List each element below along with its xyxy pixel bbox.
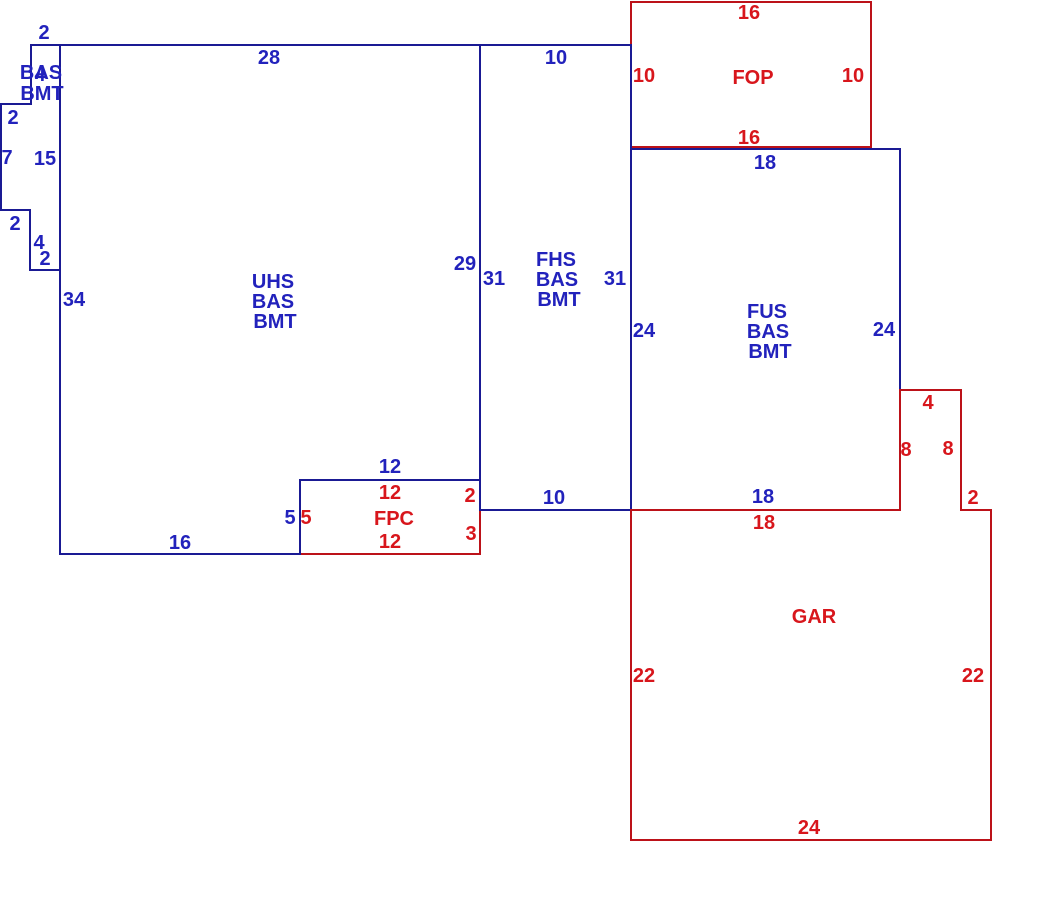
- svg-text:15: 15: [34, 148, 56, 170]
- svg-text:3: 3: [465, 523, 476, 545]
- svg-text:FHS: FHS: [536, 249, 576, 271]
- svg-text:8: 8: [900, 439, 911, 461]
- FUS BAS BMT rectangle: [631, 149, 900, 510]
- svg-text:FUS: FUS: [747, 301, 787, 323]
- svg-text:BAS: BAS: [252, 291, 294, 313]
- svg-text:18: 18: [752, 486, 774, 508]
- svg-text:24: 24: [873, 319, 896, 341]
- svg-text:2: 2: [464, 485, 475, 507]
- svg-text:4: 4: [922, 392, 934, 414]
- GAR red polygon: [631, 390, 991, 840]
- svg-text:12: 12: [379, 531, 401, 553]
- svg-text:29: 29: [454, 253, 476, 275]
- svg-text:18: 18: [753, 512, 775, 534]
- svg-text:FPC: FPC: [374, 508, 414, 530]
- svg-text:2: 2: [7, 107, 18, 129]
- svg-text:2: 2: [39, 248, 50, 270]
- svg-text:28: 28: [258, 47, 280, 69]
- svg-text:10: 10: [633, 65, 655, 87]
- svg-text:24: 24: [633, 320, 656, 342]
- svg-text:BMT: BMT: [748, 341, 791, 363]
- FOP red rectangle: [631, 2, 871, 147]
- svg-text:7: 7: [1, 147, 12, 169]
- FPC red rectangle (drawn first so blue shared edges overlay): [300, 480, 480, 554]
- svg-text:BMT: BMT: [253, 311, 296, 333]
- UHS BAS BMT polygon outline: [1, 45, 480, 554]
- svg-text:16: 16: [738, 127, 760, 149]
- svg-text:2: 2: [9, 213, 20, 235]
- svg-text:2: 2: [38, 22, 49, 44]
- svg-text:5: 5: [300, 507, 311, 529]
- svg-text:BAS: BAS: [747, 321, 789, 343]
- svg-text:10: 10: [543, 487, 565, 509]
- svg-text:18: 18: [754, 152, 776, 174]
- FHS BAS BMT rectangle: [480, 45, 631, 510]
- svg-text:BMT: BMT: [537, 289, 580, 311]
- svg-text:16: 16: [738, 2, 760, 24]
- svg-text:22: 22: [962, 665, 984, 687]
- svg-text:12: 12: [379, 456, 401, 478]
- svg-text:10: 10: [842, 65, 864, 87]
- svg-text:BAS: BAS: [536, 269, 578, 291]
- svg-text:UHS: UHS: [252, 271, 294, 293]
- interior strip line (15): [59, 45, 61, 270]
- svg-text:22: 22: [633, 665, 655, 687]
- svg-text:34: 34: [63, 289, 86, 311]
- svg-text:31: 31: [483, 268, 505, 290]
- svg-text:GAR: GAR: [792, 606, 837, 628]
- svg-text:10: 10: [545, 47, 567, 69]
- svg-text:FOP: FOP: [732, 67, 773, 89]
- svg-text:BMT: BMT: [20, 83, 63, 105]
- svg-text:2: 2: [967, 487, 978, 509]
- svg-text:31: 31: [604, 268, 626, 290]
- svg-text:16: 16: [169, 532, 191, 554]
- svg-text:12: 12: [379, 482, 401, 504]
- svg-text:5: 5: [284, 507, 295, 529]
- svg-text:24: 24: [798, 817, 821, 839]
- svg-text:8: 8: [942, 438, 953, 460]
